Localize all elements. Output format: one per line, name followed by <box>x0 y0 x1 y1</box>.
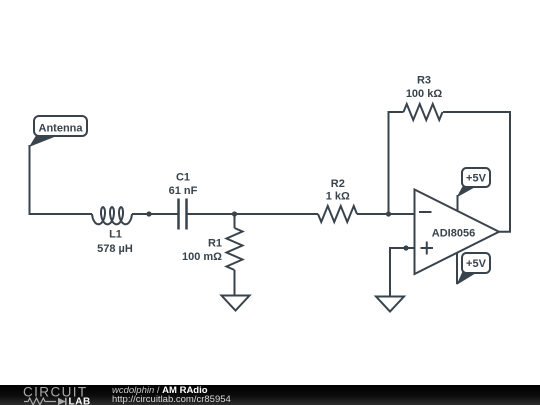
svg-text:578 µH: 578 µH <box>97 243 133 255</box>
svg-text:C1: C1 <box>176 172 190 184</box>
svg-text:100 mΩ: 100 mΩ <box>182 251 222 263</box>
svg-text:+5V: +5V <box>466 258 487 270</box>
svg-text:R3: R3 <box>417 75 431 87</box>
svg-text:ADI8056: ADI8056 <box>432 228 475 240</box>
svg-text:+5V: +5V <box>466 173 487 185</box>
svg-text:61 nF: 61 nF <box>169 185 198 197</box>
svg-text:R2: R2 <box>331 178 345 190</box>
svg-text:LAB: LAB <box>69 397 91 405</box>
svg-text:1 kΩ: 1 kΩ <box>326 191 350 203</box>
svg-text:L1: L1 <box>109 229 122 241</box>
svg-text:Antenna: Antenna <box>39 122 84 134</box>
svg-text:100 kΩ: 100 kΩ <box>406 88 443 100</box>
svg-text:R1: R1 <box>208 238 222 250</box>
